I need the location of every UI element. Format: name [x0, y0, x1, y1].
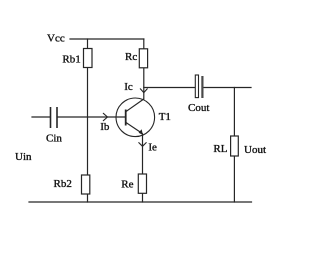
svg-text:Uout: Uout	[244, 144, 266, 156]
transistor T1 base bar	[125, 110, 127, 126]
resistor Rb1	[84, 49, 93, 68]
wire Vcc top rail	[70, 38, 144, 40]
wire collector node to Cout	[144, 87, 195, 89]
svg-text:Ie: Ie	[148, 142, 157, 154]
svg-text:Cin: Cin	[46, 133, 62, 145]
arrow Ie on emitter wire	[139, 143, 146, 147]
resistor Re	[138, 174, 146, 193]
svg-text:Ic: Ic	[124, 81, 133, 93]
wire RL bottom	[233, 156, 235, 202]
transistor T1 body circle	[116, 98, 155, 137]
wire Cin to base	[58, 116, 126, 118]
svg-text:Ib: Ib	[100, 121, 110, 133]
wire emitter vertical	[142, 134, 144, 174]
wire Rb1 to Rb2 vertical through base node	[87, 68, 89, 176]
resistor RL	[231, 136, 239, 156]
wire Rb1 top drop	[87, 39, 89, 49]
wire Rc top drop	[143, 39, 145, 49]
svg-text:Rc: Rc	[125, 51, 137, 63]
capacitor C_in plates	[51, 107, 58, 128]
svg-text:Cout: Cout	[188, 102, 209, 114]
arrow Ic on collector wire	[140, 89, 147, 93]
wire collector vertical	[143, 68, 145, 100]
transistor T1 emitter arrowhead	[139, 129, 143, 135]
wire ground bottom rail	[29, 201, 252, 203]
svg-text:Uin: Uin	[15, 151, 32, 163]
resistor Rb2	[82, 175, 90, 194]
wire RL top drop	[233, 88, 235, 137]
capacitor C_out right plate	[201, 76, 203, 98]
wire Rb2 bottom	[87, 194, 89, 202]
transistor T1 collector diagonal	[126, 99, 144, 112]
svg-text:RL: RL	[213, 143, 227, 155]
wire Re bottom	[142, 193, 144, 202]
svg-text:Re: Re	[121, 179, 133, 191]
svg-text:T1: T1	[159, 111, 171, 123]
transistor T1 emitter diagonal	[126, 123, 142, 134]
svg-text:Rb1: Rb1	[62, 54, 80, 66]
resistor Rc	[139, 49, 147, 68]
arrow Ib on base wire	[103, 113, 107, 120]
svg-text:Vcc: Vcc	[47, 33, 65, 45]
svg-text:Rb2: Rb2	[54, 178, 72, 190]
wire Cout to right end	[204, 87, 251, 89]
wire input left segment	[32, 116, 50, 118]
capacitor C_out left plate	[195, 75, 198, 98]
